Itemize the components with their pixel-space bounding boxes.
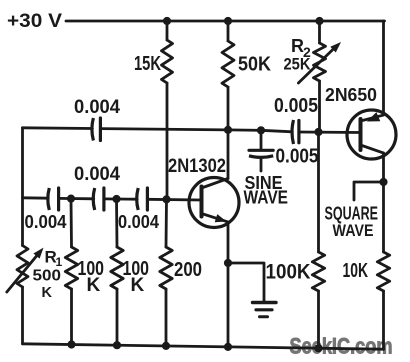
node top rail / 50K [224, 17, 232, 25]
svg-text:500: 500 [33, 268, 62, 285]
svg-text:0.005: 0.005 [274, 95, 318, 117]
svg-text:0.004: 0.004 [25, 212, 67, 232]
capacitor 0.005 sine output [249, 149, 273, 152]
node bottom / 100K#1 [67, 340, 75, 348]
arrow R2 wiper [298, 48, 334, 83]
node bottom / 100K#3 [314, 344, 322, 352]
wire sine tap down [260, 130, 263, 148]
wire bottom rail [23, 344, 384, 349]
node chain/100K #2 [112, 195, 120, 203]
transistor 2N650 body [347, 110, 396, 159]
wire chain segment b [59, 197, 94, 200]
wire top +30V rail [66, 20, 385, 23]
svg-text:WAVE: WAVE [333, 222, 374, 240]
wire square tap [354, 182, 384, 200]
svg-text:0.004: 0.004 [74, 97, 120, 118]
wire R2 bottom lead [318, 81, 321, 132]
wire mid line center segment [100, 129, 292, 132]
node emitter / ground [224, 259, 232, 267]
svg-text:0.004: 0.004 [74, 164, 120, 185]
node square output tap [379, 178, 387, 186]
resistor 15K [162, 40, 173, 83]
wire 100K#1 top lead [70, 199, 73, 247]
wire 2N650 collector down [382, 153, 385, 252]
node collector 2N1302 / 50K [224, 126, 232, 134]
wire chain segment a [23, 196, 49, 199]
resistor 50K [222, 41, 234, 87]
svg-text:K: K [87, 275, 101, 296]
arrowhead R2 [330, 42, 341, 53]
node bottom / 200 [162, 342, 170, 350]
svg-text:50K: 50K [238, 54, 271, 76]
svg-text:2N1302: 2N1302 [168, 156, 226, 177]
svg-text:10K: 10K [343, 260, 369, 282]
svg-text:WAVE: WAVE [244, 188, 289, 208]
resistor 100K #2 [111, 247, 123, 289]
arrow R1 wiper [7, 255, 38, 292]
arrowhead R1 [33, 248, 43, 259]
transistor 2N1302 base bar [200, 187, 204, 217]
wire chain to 2N1302 base [147, 198, 201, 201]
wire 2N1302 collector lead [227, 130, 230, 179]
wire 50K bottom lead [227, 87, 230, 130]
resistor R2 25K variable [314, 43, 326, 81]
node sine output tap [257, 126, 265, 134]
node chain/100K #1 [67, 195, 75, 203]
resistor 100K #1 [65, 247, 77, 289]
transistor 2N1302 emitter inner [202, 214, 228, 222]
wire chain left vertical top [21, 128, 24, 246]
wire chain segment c [104, 197, 137, 200]
node bottom / emitter [224, 343, 232, 351]
transistor 2N1302 body [189, 178, 239, 228]
transistor 2N650 base bar [359, 119, 363, 150]
wire 200 top lead [165, 199, 168, 247]
svg-text:+30 V: +30 V [7, 11, 62, 32]
svg-text:0.004: 0.004 [118, 212, 159, 232]
svg-text:2N650: 2N650 [325, 85, 377, 105]
wire 10K bottom lead [382, 291, 385, 349]
wire 100K#1 bottom lead [70, 289, 73, 345]
capacitor 0.004 #1 [48, 188, 50, 210]
wire 100K#2 bottom lead [116, 289, 119, 345]
transistor 2N1302 collector inner [202, 179, 229, 189]
svg-text:0.005: 0.005 [276, 146, 319, 168]
svg-text:K: K [131, 275, 145, 296]
capacitor 0.004 #3 [137, 188, 139, 210]
resistor 200 [160, 247, 172, 289]
wire 15K to base node [166, 83, 169, 199]
svg-text:100K: 100K [266, 261, 311, 284]
wire 200 bottom lead [165, 289, 168, 346]
transistor 2N1302 emitter arrow (NPN) [215, 214, 227, 222]
svg-text:SeekIC.com: SeekIC.com [290, 334, 393, 359]
node 2N650 base / R2 / 100K [314, 128, 322, 136]
node top rail / R2 [315, 17, 323, 25]
svg-text:15K: 15K [134, 53, 161, 75]
svg-text:K: K [42, 285, 53, 301]
wire R1 bottom lead [21, 287, 24, 344]
wire 50K top lead [227, 21, 230, 41]
capacitor 0.004 feedback [92, 118, 94, 141]
wire sine output stub [260, 159, 263, 172]
wire 100K#3 top lead [317, 132, 320, 252]
svg-text:25K: 25K [284, 55, 312, 74]
svg-text:SQUARE: SQUARE [325, 204, 379, 224]
ground symbol [253, 301, 277, 304]
transistor 2N650 emitter arrow (PNP) [367, 112, 381, 121]
wire +30V to 2N650 emitter [382, 21, 385, 115]
transistor 2N650 emitter lead [361, 115, 384, 121]
capacitor 0.005 coupling [292, 120, 294, 144]
resistor 100K #3 [312, 252, 324, 291]
svg-text:200: 200 [174, 259, 202, 281]
wire emitter to ground [228, 263, 264, 302]
capacitor 0.004 #2 [93, 188, 95, 210]
wire 100K#3 bottom lead [317, 291, 320, 348]
wire 15K top lead [166, 21, 169, 40]
resistor 10K [377, 252, 389, 291]
node bottom / 100K#2 [113, 341, 121, 349]
node chain/15K/200/base [162, 195, 170, 203]
wire mid line to 2N650 base [299, 131, 361, 134]
transistor 2N650 collector lead [361, 145, 384, 153]
wire 100K#2 top lead [115, 199, 118, 247]
wire 2N1302 emitter lead down [227, 222, 230, 347]
node top rail / 15K [163, 17, 171, 25]
wire mid line left segment [23, 126, 93, 129]
resistor R1 500K variable [17, 246, 28, 288]
wire R2 top lead [318, 21, 321, 43]
